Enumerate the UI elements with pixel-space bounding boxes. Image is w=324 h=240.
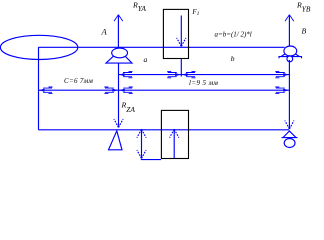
- wire extension B down to bottom beam: [288, 60, 290, 129]
- force R_YA arrow shaft: [117, 15, 119, 47]
- arrowhead F1 (dotted): [177, 38, 186, 46]
- dim arrow a left: [119, 71, 133, 77]
- gear rect top: [163, 9, 188, 58]
- arrowhead radius bottom (dotted): [137, 150, 146, 158]
- dimension line l: [119, 89, 290, 91]
- svg-text:RYB: RYB: [296, 1, 311, 14]
- dim arrow c right: [104, 87, 118, 93]
- wire left vertical: [38, 47, 40, 130]
- arrowhead R_ZA tip (dotted): [114, 119, 123, 127]
- svg-text:RZA: RZA: [121, 100, 136, 114]
- force arrow in bottom gear: [173, 129, 175, 158]
- support B roller: [287, 56, 293, 62]
- dim arrow c left: [39, 87, 53, 93]
- dimension line a-b: [119, 74, 290, 76]
- wire radius baseline: [141, 159, 161, 161]
- svg-text:C=6 7мм: C=6 7мм: [64, 77, 93, 85]
- support A ball: [112, 48, 128, 58]
- force R_YB arrow shaft: [288, 15, 290, 47]
- svg-text:a=b=(1/ 2)*l: a=b=(1/ 2)*l: [215, 30, 252, 38]
- dim arrow a right: [167, 71, 181, 77]
- wire bottom beam axis: [39, 129, 290, 131]
- wire extension A down to bottom beam: [118, 63, 120, 127]
- support B2 triangle: [282, 131, 298, 138]
- svg-text:a: a: [144, 55, 148, 64]
- arrowhead R_ZB tip (dotted): [285, 120, 294, 128]
- arrowhead R_YB: [285, 15, 294, 21]
- dim arrow b left: [182, 71, 196, 77]
- wire top beam axis: [39, 46, 285, 48]
- support B2 roller: [284, 139, 295, 148]
- support B hat: [279, 51, 303, 59]
- support A2 triangle: [109, 131, 123, 150]
- svg-text:F1: F1: [191, 8, 199, 17]
- dimension line c: [39, 89, 119, 91]
- gear rect bottom: [161, 110, 188, 158]
- dim arrow b right: [275, 71, 289, 77]
- force F1 arrow shaft: [180, 16, 182, 47]
- support A triangle: [106, 51, 132, 64]
- svg-text:l=9 5 мм: l=9 5 мм: [189, 79, 218, 87]
- svg-text:A: A: [101, 26, 108, 36]
- dim arrow l left: [119, 87, 133, 93]
- dimension radius double arrow: [141, 129, 143, 159]
- wire F1 extension below gear: [180, 58, 182, 77]
- motor ellipse: [0, 35, 77, 59]
- svg-text:B: B: [302, 26, 307, 35]
- dim arrow l right: [275, 87, 289, 93]
- svg-text:RYA: RYA: [132, 1, 146, 14]
- arrowhead R_YA: [114, 15, 123, 21]
- svg-text:b: b: [231, 54, 235, 63]
- support B ball: [284, 46, 297, 56]
- arrowhead bottom gear force (dotted): [170, 129, 179, 137]
- arrowhead radius top (dotted): [137, 129, 146, 137]
